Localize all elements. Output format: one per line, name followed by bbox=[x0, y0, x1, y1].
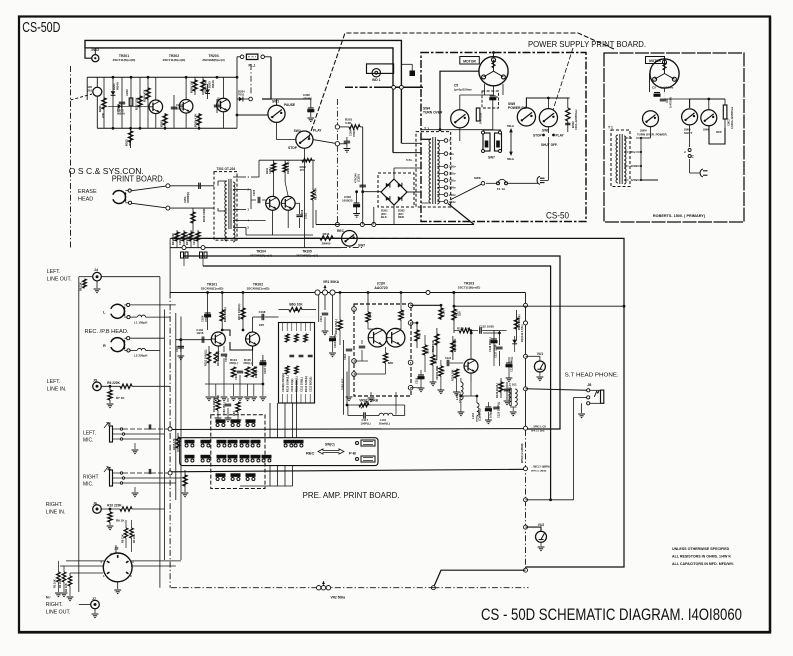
svg-text:J8: J8 bbox=[587, 383, 591, 387]
component C6 bbox=[723, 105, 727, 119]
resistor IC-R3 bbox=[383, 353, 387, 363]
motor M2 label bbox=[646, 57, 665, 64]
jack J2 bbox=[110, 470, 113, 486]
svg-text:LEFT.: LEFT. bbox=[47, 379, 61, 385]
svg-text:SHUT OFF.: SHUT OFF. bbox=[541, 143, 558, 147]
svg-text:SW7: SW7 bbox=[488, 156, 495, 160]
coil L103 bbox=[477, 403, 479, 407]
transistor TR203 bbox=[217, 98, 231, 112]
svg-text:68K: 68K bbox=[388, 361, 394, 365]
wire PL1 drop bbox=[262, 57, 271, 99]
svg-text:120v: 120v bbox=[449, 179, 456, 183]
resistor R205 bbox=[164, 113, 166, 128]
svg-text:R7 1K: R7 1K bbox=[116, 396, 125, 400]
capacitor C106 bbox=[237, 370, 243, 372]
bridge box bbox=[378, 173, 414, 207]
IC pin 8 bbox=[352, 307, 357, 312]
diode D104 bbox=[514, 334, 516, 350]
bridge diamond bbox=[381, 179, 407, 205]
transformer T1 box bbox=[416, 132, 451, 207]
svg-text:R103 47K: R103 47K bbox=[172, 438, 176, 450]
svg-text:J3: J3 bbox=[114, 546, 119, 551]
wire sw4b down bbox=[650, 127, 652, 138]
lamp IND2 bbox=[92, 55, 99, 62]
IC pin 3 bbox=[352, 372, 357, 377]
svg-text:MIC.: MIC. bbox=[83, 438, 94, 444]
wire mic line L bbox=[170, 428, 524, 431]
motor M2 bbox=[650, 59, 679, 88]
transistor TR201 bbox=[149, 100, 163, 114]
svg-text:PL,1: PL,1 bbox=[249, 64, 256, 68]
wire bus to loopA bbox=[454, 305, 624, 307]
svg-text:R4 10K: R4 10K bbox=[64, 583, 68, 592]
resistor R208 bbox=[202, 77, 204, 95]
svg-text:PLAY: PLAY bbox=[556, 134, 565, 138]
svg-text:PRE. AMP. PRINT BOARD.: PRE. AMP. PRINT BOARD. bbox=[303, 491, 400, 500]
wire IC feeds bbox=[367, 293, 369, 305]
switch SW4b bbox=[643, 111, 659, 127]
wire J8 c2 bbox=[574, 396, 587, 398]
terminal IND1 bbox=[401, 63, 412, 65]
svg-text:60v: 60v bbox=[631, 150, 636, 154]
svg-text:R201: R201 bbox=[98, 105, 102, 112]
resistor R213b bbox=[302, 158, 312, 162]
capacitor C123 bbox=[485, 406, 491, 408]
capacitor IC-C1 bbox=[359, 345, 365, 347]
svg-text:T 1: T 1 bbox=[608, 126, 613, 130]
svg-text:LINE OUT.: LINE OUT. bbox=[47, 277, 72, 283]
switch SW4 bbox=[451, 110, 469, 128]
svg-text:K: K bbox=[496, 95, 498, 99]
svg-text:50Hz: 50Hz bbox=[507, 124, 515, 128]
svg-text:C108: C108 bbox=[259, 310, 266, 314]
svg-text:MTR(C) 2-1(BRN): MTR(C) 2-1(BRN) bbox=[521, 443, 524, 463]
svg-text:C105: C105 bbox=[224, 355, 228, 362]
svg-text:R119 18K: R119 18K bbox=[451, 369, 455, 381]
svg-text:C126 20/6(L): C126 20/6(L) bbox=[510, 357, 514, 372]
svg-text:47K(L): 47K(L) bbox=[243, 361, 252, 365]
capacitor C122 bbox=[479, 327, 481, 333]
wire bridge bottom bbox=[393, 205, 395, 225]
capacitor C127 bbox=[498, 331, 500, 345]
capacitor C116 bbox=[346, 348, 352, 350]
svg-text:C111 330(L): C111 330(L) bbox=[299, 377, 303, 392]
pilot lamp PL1 bbox=[246, 54, 258, 59]
IC pin 6 bbox=[408, 321, 413, 326]
component R302 bbox=[566, 108, 570, 121]
transformer T1b core bbox=[619, 134, 621, 184]
svg-text:0.47/330: 0.47/330 bbox=[479, 112, 483, 124]
switch SW2 PLAY STOP bbox=[296, 131, 313, 148]
wire R301 drop bbox=[362, 127, 364, 218]
resistor R201 bbox=[103, 77, 105, 128]
svg-text:R107 330K(L): R107 330K(L) bbox=[237, 303, 241, 320]
wire J1 lines bbox=[123, 428, 170, 430]
svg-text:470: 470 bbox=[401, 311, 405, 316]
motor M1 bbox=[479, 57, 508, 86]
svg-text:470: 470 bbox=[300, 168, 305, 172]
svg-text:STOP: STOP bbox=[533, 134, 542, 138]
resistor R2 bbox=[57, 572, 61, 582]
wire J7 bus bbox=[78, 592, 80, 605]
resistor R206 bbox=[194, 77, 196, 95]
board boundary stub bbox=[250, 64, 252, 94]
right column C129 bbox=[506, 382, 508, 400]
transformer T1b secondary bbox=[624, 136, 626, 140]
svg-text:C107 10/16: C107 10/16 bbox=[263, 360, 267, 374]
resistor R103 bbox=[177, 433, 179, 452]
matrix aux contacts bbox=[216, 420, 225, 423]
wire pin5 link bbox=[411, 362, 425, 364]
svg-text:(C)6mH(L): (C)6mH(L) bbox=[477, 408, 481, 421]
transformer T201 taps bbox=[233, 176, 246, 178]
svg-text:100P(L): 100P(L) bbox=[361, 421, 371, 425]
wire right drop bbox=[236, 77, 238, 128]
resistor R-470 bbox=[416, 323, 418, 348]
resistor R0b bbox=[130, 528, 134, 538]
svg-text:IN34A: IN34A bbox=[117, 112, 125, 116]
svg-text:REC. /P.B HEAD.: REC. /P.B HEAD. bbox=[85, 329, 129, 335]
resistor R104 bbox=[233, 366, 235, 384]
wire TR105 collector bbox=[470, 331, 472, 360]
svg-text:R210 100K: R210 100K bbox=[202, 208, 206, 222]
capacitor C115 bbox=[330, 336, 336, 338]
svg-text:MTR 2-1 (RED): MTR 2-1 (RED) bbox=[531, 471, 546, 473]
wire SW2 down bbox=[303, 148, 305, 247]
svg-text:C114: C114 bbox=[319, 315, 323, 322]
pot VR101 bbox=[347, 404, 405, 406]
resistor R-330 bbox=[423, 345, 427, 355]
strip box bbox=[279, 323, 315, 404]
wire IC bottom drops bbox=[370, 392, 372, 396]
transistor IC-Q2 bbox=[386, 328, 405, 347]
svg-text:M /: M / bbox=[46, 596, 51, 600]
svg-text:VU1: VU1 bbox=[537, 352, 544, 356]
wire top rail 1 bbox=[85, 40, 401, 143]
svg-text:LINE IN.: LINE IN. bbox=[46, 510, 66, 516]
svg-text:200v: 200v bbox=[449, 186, 456, 190]
transformer T1 taps bbox=[437, 140, 444, 142]
resistor R120 bbox=[459, 328, 470, 332]
svg-text:C109(6.3/10)(L): C109(6.3/10)(L) bbox=[281, 373, 285, 392]
resistor R-15K bbox=[440, 305, 442, 320]
wire bias bottom bbox=[245, 228, 247, 236]
svg-text:0.0334+120/500wv: 0.0334+120/500wv bbox=[730, 106, 734, 129]
transformer T1b taps bbox=[624, 137, 629, 139]
capacitor C121 bbox=[446, 360, 448, 366]
svg-text:470: 470 bbox=[418, 333, 422, 338]
svg-text:HEAD: HEAD bbox=[78, 197, 93, 203]
svg-text:15K: 15K bbox=[368, 313, 372, 318]
component C209 bbox=[183, 230, 185, 248]
capacitor C114 bbox=[322, 312, 328, 314]
transformer T201 secondary bbox=[233, 182, 235, 186]
svg-text:3.3(L): 3.3(L) bbox=[268, 167, 272, 174]
switch matrix box bbox=[180, 438, 378, 466]
wire bridge left bbox=[363, 191, 381, 193]
resistor R119 bbox=[454, 369, 458, 378]
wire roberts taps bbox=[640, 138, 642, 180]
coil L101 bbox=[379, 413, 384, 415]
wire TR203 collector up bbox=[236, 57, 238, 78]
component R217 1K bbox=[190, 230, 192, 248]
wire bus bottom bbox=[433, 570, 525, 588]
wire roberts mains bbox=[690, 172, 700, 174]
capacitor C205 bbox=[216, 99, 218, 113]
junction dots osc bbox=[112, 76, 115, 79]
svg-text:C115 470(L): C115 470(L) bbox=[333, 333, 337, 348]
wire top rail 2 bbox=[85, 48, 95, 58]
transformer T1b primary bbox=[616, 135, 618, 139]
wire taps to sw8 bbox=[421, 129, 440, 131]
wire left boundary bbox=[169, 238, 171, 292]
wire mid link bbox=[230, 342, 253, 350]
svg-text:2SC711(B)or(E): 2SC711(B)or(E) bbox=[458, 286, 481, 290]
wire osc rail dashdot bbox=[341, 247, 362, 249]
notch loop bbox=[347, 405, 349, 416]
svg-text:R10 220K: R10 220K bbox=[107, 504, 122, 508]
svg-text:B6G 10K: B6G 10K bbox=[289, 303, 303, 307]
svg-text:C304+120/500wv: C304+120/500wv bbox=[574, 109, 578, 130]
resistor R8b bbox=[124, 528, 128, 538]
svg-text:VU2: VU2 bbox=[538, 523, 545, 527]
svg-text:1.5K: 1.5K bbox=[441, 309, 445, 316]
wire notch feed bbox=[343, 340, 345, 415]
svg-text:R103 330(L): R103 330(L) bbox=[223, 307, 227, 322]
switch SW8a bbox=[539, 109, 557, 127]
svg-text:AAO720: AAO720 bbox=[374, 286, 387, 290]
resistor R102 bbox=[215, 346, 217, 384]
svg-text:T201 OT-224: T201 OT-224 bbox=[216, 167, 235, 171]
svg-text:C110 10(L): C110 10(L) bbox=[290, 378, 294, 392]
capacitor C303 bbox=[356, 192, 358, 203]
svg-text:UNLESS OTHERWISE SPECIFIED: UNLESS OTHERWISE SPECIFIED bbox=[672, 547, 730, 551]
transformer T1 secondary bbox=[437, 140, 439, 144]
svg-text:RIGHT.: RIGHT. bbox=[46, 502, 63, 508]
wire stage bottom bbox=[205, 383, 263, 385]
svg-text:0.47/500: 0.47/500 bbox=[669, 97, 673, 108]
svg-text:MIC.: MIC. bbox=[83, 482, 94, 488]
svg-text:C113 B20(L): C113 B20(L) bbox=[309, 377, 313, 392]
wire bottom bus bbox=[171, 587, 433, 589]
capacitor C204 bbox=[198, 183, 200, 189]
pot VR1 bbox=[315, 290, 320, 295]
svg-text:2SC458(C)or(D): 2SC458(C)or(D) bbox=[247, 287, 270, 291]
resistor R115 bbox=[436, 328, 438, 360]
svg-text:R116 47K(L): R116 47K(L) bbox=[334, 319, 338, 334]
capacitor C104 bbox=[207, 293, 209, 331]
svg-text:←SPK1 L-CH: ←SPK1 L-CH bbox=[531, 426, 546, 429]
capacitor C107 bbox=[262, 355, 264, 384]
wire SW5 SW8 top bbox=[526, 98, 569, 108]
svg-text:R122 2K2(L): R122 2K2(L) bbox=[517, 314, 521, 330]
wire TR105 emitter bbox=[470, 373, 472, 382]
wire osc bottom rail bbox=[97, 127, 237, 129]
capacitor C117 bbox=[363, 412, 365, 418]
capacitor C202 bbox=[130, 77, 132, 128]
svg-text:C121: C121 bbox=[445, 356, 452, 360]
svg-text:L103: L103 bbox=[471, 413, 475, 419]
svg-text:REC: REC bbox=[306, 451, 315, 456]
resistor R109 bbox=[236, 402, 240, 412]
jack J1 bbox=[110, 426, 113, 442]
component R213 100 bbox=[176, 230, 178, 248]
svg-text:R108 (D8(L): R108 (D8(L) bbox=[212, 397, 216, 412]
switch SW8 selector bbox=[450, 183, 483, 200]
svg-text:RED: RED bbox=[398, 215, 404, 219]
capacitor C206 bbox=[296, 214, 302, 216]
wire osc left drop bbox=[86, 77, 88, 100]
transistor TR202 bbox=[179, 100, 193, 114]
wire VR1 drops bbox=[318, 295, 320, 322]
svg-text:470C/40: 470C/40 bbox=[353, 173, 357, 183]
resistor R106 bbox=[252, 367, 256, 377]
svg-text:R139 2K2(L): R139 2K2(L) bbox=[495, 383, 499, 398]
svg-text:MOTOR: MOTOR bbox=[649, 59, 662, 63]
svg-text:2SC711(B)or(D): 2SC711(B)or(D) bbox=[113, 58, 136, 62]
wire to power box1 bbox=[401, 142, 421, 144]
coil L102 bbox=[460, 378, 462, 382]
resistor R108 bbox=[216, 400, 220, 410]
pot VR102 bbox=[439, 366, 443, 376]
svg-text:R101 100K(L): R101 100K(L) bbox=[203, 349, 207, 366]
resistor R118 bbox=[452, 336, 454, 360]
wire J3 right bbox=[131, 560, 181, 562]
wire J3 up bbox=[115, 545, 117, 553]
svg-text:P·B: P·B bbox=[349, 451, 356, 456]
svg-text:C83 33(L): C83 33(L) bbox=[222, 402, 226, 414]
wire mains bbox=[486, 182, 497, 184]
capacitor C105 bbox=[221, 353, 227, 355]
resistor IC-R2 bbox=[399, 310, 403, 320]
capacitor C203 bbox=[173, 95, 175, 128]
svg-text:STOP: STOP bbox=[288, 146, 298, 150]
svg-text:C205: C205 bbox=[252, 189, 256, 196]
diode D203 bbox=[207, 84, 209, 99]
svg-text:6µ/100wv: 6µ/100wv bbox=[660, 86, 674, 90]
resistor R9 bbox=[109, 509, 111, 512]
svg-text:R115 10K: R115 10K bbox=[431, 340, 435, 352]
matrix down wires bbox=[269, 466, 271, 486]
svg-text:470/25: 470/25 bbox=[352, 128, 356, 137]
resistor R116 bbox=[338, 320, 342, 330]
connector pads bbox=[181, 252, 184, 258]
meter VU2 bbox=[536, 531, 547, 542]
wire TR101 collector bbox=[217, 330, 219, 332]
svg-text:IN34A: IN34A bbox=[115, 82, 119, 90]
svg-text:ALL RESISTORS IN OHMS. 1/4W K: ALL RESISTORS IN OHMS. 1/4W K bbox=[672, 555, 731, 559]
resistor R211 bbox=[273, 160, 275, 196]
svg-text:100v: 100v bbox=[449, 165, 456, 169]
fuse F1 bbox=[497, 182, 500, 185]
resistor R1 bbox=[62, 572, 66, 582]
svg-text:L1 100µH: L1 100µH bbox=[134, 321, 147, 325]
svg-text:C106: C106 bbox=[234, 373, 238, 380]
svg-text:S1B2 41/5: S1B2 41/5 bbox=[342, 378, 345, 390]
diode D202 bbox=[108, 105, 148, 107]
wire motor left bbox=[440, 71, 479, 130]
wire J2 lines bbox=[123, 472, 170, 474]
wire roberts bottom bbox=[664, 92, 666, 99]
svg-text:201: 201 bbox=[87, 89, 92, 93]
svg-text:VR1 50KA: VR1 50KA bbox=[323, 280, 340, 284]
svg-text:R207 22K: R207 22K bbox=[134, 97, 138, 110]
svg-text:←M(C) 2-1(BRN): ←M(C) 2-1(BRN) bbox=[531, 466, 550, 469]
svg-text:S.T HEAD PHONE.: S.T HEAD PHONE. bbox=[565, 373, 620, 379]
IC pin 2 bbox=[352, 359, 357, 364]
wire SW2 right bbox=[313, 140, 336, 144]
svg-text:R(C)144 2-7(6+): R(C)144 2-7(6+) bbox=[521, 324, 524, 342]
wire sw5b down bbox=[689, 125, 691, 147]
wire head L bbox=[130, 304, 176, 306]
svg-text:R214 4.7K: R214 4.7K bbox=[313, 187, 317, 200]
svg-text:LEFT.: LEFT. bbox=[83, 431, 96, 437]
wire left bus 3 bbox=[175, 313, 177, 500]
wire osc top rail bbox=[87, 76, 237, 78]
jack J8 bbox=[587, 389, 590, 392]
freq arrow bbox=[510, 131, 512, 153]
plug P2 bbox=[700, 169, 703, 177]
wire SW8 bottom bbox=[547, 127, 549, 133]
svg-text:PAUSE: PAUSE bbox=[284, 103, 296, 107]
transistor TR101 bbox=[211, 332, 225, 346]
svg-text:C202: C202 bbox=[125, 89, 129, 96]
svg-text:C119: C119 bbox=[415, 377, 419, 384]
wire pin7 to rail bbox=[411, 304, 441, 306]
svg-text:J4: J4 bbox=[94, 268, 98, 272]
svg-text:2SC968(B)or(4): 2SC968(B)or(4) bbox=[202, 58, 224, 62]
svg-text:VR102 2KB: VR102 2KB bbox=[435, 366, 439, 380]
capacitor C125 bbox=[493, 406, 499, 408]
svg-text:R110 100K(L): R110 100K(L) bbox=[286, 375, 290, 392]
switch SW1 PAUSE bbox=[268, 105, 285, 122]
switch SW7 bbox=[342, 231, 358, 247]
diode D201 bbox=[112, 77, 114, 128]
svg-text:1000/25: 1000/25 bbox=[342, 198, 353, 202]
wire mic line R bbox=[170, 469, 524, 472]
svg-text:60Hz: 60Hz bbox=[507, 157, 515, 161]
transformer T1 primary bbox=[429, 139, 431, 143]
wire to power box2 bbox=[393, 152, 421, 154]
resistor R202 bbox=[130, 128, 132, 148]
svg-text:220v: 220v bbox=[449, 193, 456, 197]
svg-text:REC: REC bbox=[337, 229, 345, 233]
IC pin 4 bbox=[408, 385, 413, 390]
svg-text:R2 10K: R2 10K bbox=[53, 579, 57, 588]
wire preamp rail bbox=[170, 292, 525, 294]
svg-text:R302: R302 bbox=[571, 121, 575, 128]
ground J3 bbox=[117, 582, 119, 589]
matrix arrow bbox=[318, 449, 344, 454]
capacitor C201 bbox=[121, 77, 123, 128]
svg-text:470/50: 470/50 bbox=[303, 96, 312, 100]
svg-text:SW7: SW7 bbox=[358, 244, 365, 248]
svg-text:SW2: SW2 bbox=[294, 129, 301, 133]
svg-text:PRINT BOARD.: PRINT BOARD. bbox=[112, 175, 165, 184]
wire pin4 link bbox=[411, 387, 421, 389]
bus nodes bbox=[524, 303, 528, 307]
resistor R209 bbox=[198, 113, 200, 128]
strip symbols bbox=[285, 334, 289, 342]
svg-text:C125 100P(L): C125 100P(L) bbox=[496, 402, 500, 418]
wire matrix bottom bbox=[240, 485, 293, 487]
matrix contacts row2 bbox=[185, 455, 194, 458]
svg-text:SW1: SW1 bbox=[272, 100, 279, 104]
svg-text:C209: C209 bbox=[178, 238, 182, 245]
svg-text:RIGHT.: RIGHT. bbox=[46, 602, 63, 608]
strip contents bbox=[282, 323, 284, 332]
svg-text:5.5v: 5.5v bbox=[406, 158, 412, 162]
